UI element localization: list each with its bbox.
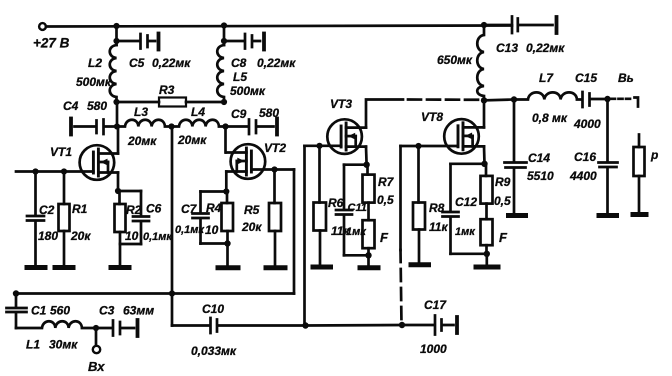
svg-text:0,033мк: 0,033мк xyxy=(191,344,237,358)
svg-text:L2: L2 xyxy=(88,56,102,70)
capacitor C4 xyxy=(75,120,118,135)
svg-text:10: 10 xyxy=(125,229,139,243)
resistor R3 xyxy=(159,98,186,107)
node R6 top xyxy=(316,143,322,149)
ground C2 xyxy=(27,265,45,270)
wire source bracket to C12 xyxy=(451,162,485,165)
svg-text:0,1мк: 0,1мк xyxy=(175,224,205,236)
svg-text:R6: R6 xyxy=(328,196,344,210)
wire C8 branch xyxy=(224,40,244,43)
capacitor C2 xyxy=(27,172,44,266)
svg-text:500мк: 500мк xyxy=(230,84,266,98)
svg-text:C2: C2 xyxy=(39,203,55,217)
node R8 top xyxy=(415,143,421,149)
wire source to C6 xyxy=(118,190,141,193)
ferrite F VT8 xyxy=(481,219,493,245)
svg-text:L5: L5 xyxy=(233,70,247,84)
node L5 bottom xyxy=(221,99,227,105)
svg-text:VT1: VT1 xyxy=(50,145,72,159)
svg-text:20к: 20к xyxy=(70,229,91,243)
capacitor C1 xyxy=(7,294,27,329)
svg-text:4400: 4400 xyxy=(569,169,597,183)
inductor L2 xyxy=(110,45,117,102)
resistor R1 xyxy=(63,172,66,205)
svg-text:0,22мк: 0,22мк xyxy=(526,41,565,55)
wire to ground VT8 xyxy=(485,254,488,265)
wire top supply rail xyxy=(46,26,512,27)
svg-text:C14: C14 xyxy=(528,151,550,165)
svg-text:5510: 5510 xyxy=(527,169,554,183)
wire C11 bottom join xyxy=(344,254,369,257)
svg-text:VT3: VT3 xyxy=(330,97,352,111)
node R4 bottom xyxy=(224,240,230,246)
capacitor C17 xyxy=(402,316,454,335)
svg-text:11к: 11к xyxy=(429,220,448,234)
inductor L5 xyxy=(217,45,224,102)
node C17 branch xyxy=(399,322,405,328)
wire C5 branch xyxy=(117,40,140,43)
node input rail xyxy=(13,290,19,296)
svg-text:0,5: 0,5 xyxy=(377,193,394,207)
svg-text:0,22мк: 0,22мк xyxy=(152,56,191,70)
wire to L7 node xyxy=(484,98,514,102)
svg-text:180: 180 xyxy=(38,229,58,243)
svg-text:L4: L4 xyxy=(191,105,205,119)
svg-text:R7: R7 xyxy=(378,175,395,189)
resistor R9 xyxy=(485,164,488,176)
svg-text:0,8 мк: 0,8 мк xyxy=(532,111,568,125)
node R9F bottom xyxy=(484,251,490,257)
svg-text:R4: R4 xyxy=(206,201,222,215)
wire C7/R4 bottom join xyxy=(201,242,228,245)
wire VT1 source drop xyxy=(117,173,120,192)
wire R3 row right xyxy=(186,101,224,104)
node C5 branch xyxy=(113,38,119,44)
svg-text:20мк: 20мк xyxy=(177,133,207,147)
dashed corner output xyxy=(635,98,639,107)
resistor R4 xyxy=(226,192,229,204)
wire C10 line xyxy=(172,324,209,327)
load resistor xyxy=(638,135,641,148)
node VT2 source xyxy=(223,188,229,194)
wire R3 row left xyxy=(117,101,160,104)
ground C14 xyxy=(509,213,526,218)
svg-text:560: 560 xyxy=(50,304,70,318)
svg-text:C4: C4 xyxy=(63,99,79,113)
wire VT2 drain xyxy=(224,127,227,153)
ground C16 xyxy=(599,213,617,218)
wire C6/R2 bottom join xyxy=(120,244,141,266)
inductor 650мк xyxy=(481,22,487,28)
svg-text:L1: L1 xyxy=(26,338,40,352)
svg-text:C12: C12 xyxy=(455,195,477,209)
ground R2C6 xyxy=(111,265,129,270)
capacitor C10 xyxy=(211,318,306,333)
svg-text:L7: L7 xyxy=(539,71,554,85)
node R1 top xyxy=(61,168,67,174)
svg-text:20мк: 20мк xyxy=(127,134,157,148)
capacitor C8 xyxy=(245,34,260,49)
svg-text:C3: C3 xyxy=(99,304,115,318)
wire VT8 gate line xyxy=(401,145,458,148)
svg-text:R8: R8 xyxy=(429,201,445,215)
wire L3L4 node to C10 line xyxy=(171,127,174,326)
svg-text:0,22мк: 0,22мк xyxy=(257,56,296,70)
svg-text:C15: C15 xyxy=(575,71,597,85)
svg-text:0,5: 0,5 xyxy=(494,194,511,208)
node input xyxy=(93,325,99,331)
wire VT3 source drop xyxy=(365,147,368,165)
resistor R2 xyxy=(118,191,121,204)
wire VT8 source drop xyxy=(483,146,486,163)
svg-text:F: F xyxy=(499,230,508,245)
wire source bracket to C11 xyxy=(344,163,367,166)
ground R1 xyxy=(55,265,73,270)
svg-text:500мк: 500мк xyxy=(76,75,112,89)
node top rail / L5 xyxy=(221,22,227,28)
wire VT8 gate down dashed xyxy=(401,250,402,325)
node rail crossing xyxy=(169,290,175,296)
node C16 top xyxy=(604,96,610,102)
wire VT1 drain column xyxy=(116,102,119,127)
wire VT3 gate column xyxy=(303,146,306,326)
svg-text:C17: C17 xyxy=(424,298,447,312)
capacitor C11 xyxy=(336,165,352,256)
svg-text:C1: C1 xyxy=(31,304,47,318)
resistor R7 xyxy=(366,165,369,175)
wire L5 branch drop xyxy=(223,26,226,46)
svg-text:R9: R9 xyxy=(495,175,511,189)
wire C12 bottom join xyxy=(451,252,487,255)
capacitor C13 xyxy=(484,17,553,34)
svg-text:1000: 1000 xyxy=(420,342,447,356)
svg-text:10: 10 xyxy=(205,223,219,237)
svg-text:C13: C13 xyxy=(496,41,518,55)
svg-text:R1: R1 xyxy=(72,202,88,216)
svg-text:Вх: Вх xyxy=(88,359,105,374)
transistor VT3 xyxy=(327,119,366,154)
node L7/C14 xyxy=(511,96,517,102)
svg-text:C6: C6 xyxy=(146,202,162,216)
wire dotted output xyxy=(611,97,631,100)
ferrite F VT3 xyxy=(363,220,375,248)
node VT8 source xyxy=(481,161,487,167)
capacitor C15 xyxy=(583,92,608,107)
input terminal Вх xyxy=(95,328,98,346)
inductor L1 xyxy=(16,321,96,328)
transistor VT8 xyxy=(444,119,484,154)
ground R9F xyxy=(476,265,498,270)
wire VT1 gate line xyxy=(16,170,93,173)
svg-text:R5: R5 xyxy=(244,203,260,217)
ground load xyxy=(633,212,646,217)
node VT1 source xyxy=(115,188,121,194)
svg-text:C10: C10 xyxy=(202,302,224,316)
inductor L3 xyxy=(117,120,172,127)
svg-text:30мк: 30мк xyxy=(49,338,78,352)
node C8 branch xyxy=(221,38,227,44)
wire F bottom xyxy=(367,248,370,255)
node C10 out xyxy=(302,322,308,328)
capacitor C9 xyxy=(226,120,274,135)
capacitor C12 xyxy=(443,164,459,254)
resistor R6 xyxy=(318,146,321,203)
svg-text:C16: C16 xyxy=(574,150,596,164)
capacitor C7 xyxy=(193,192,209,244)
node C9/L4/drain VT2 xyxy=(222,123,228,129)
wire bottom rail xyxy=(16,292,294,295)
wire source to C7 xyxy=(201,190,227,193)
inductor L7 xyxy=(514,92,581,99)
svg-text:VT8: VT8 xyxy=(421,110,443,124)
transistor VT1 xyxy=(80,145,118,180)
capacitor C6 xyxy=(133,191,149,244)
node R5 top xyxy=(271,166,277,172)
ground R4C7 xyxy=(218,265,238,270)
resistor R5 xyxy=(273,170,276,204)
wire VT2 source drop xyxy=(225,172,228,192)
svg-text:1мк: 1мк xyxy=(346,226,367,238)
wire R9 to F xyxy=(485,204,488,220)
capacitor C14 xyxy=(505,100,527,214)
svg-text:Вь: Вь xyxy=(618,71,634,85)
svg-text:VT2: VT2 xyxy=(264,141,286,155)
ground R6 xyxy=(313,265,331,270)
ground R5 xyxy=(266,265,285,270)
svg-text:63мм: 63мм xyxy=(123,304,154,318)
svg-text:4000: 4000 xyxy=(573,117,601,131)
capacitor C16 xyxy=(599,99,618,213)
svg-text:L3: L3 xyxy=(134,105,148,119)
svg-text:580: 580 xyxy=(87,99,107,113)
wire C10 to C17 xyxy=(306,324,403,327)
node L3/L4 xyxy=(168,123,174,129)
node L2 bottom xyxy=(113,99,119,105)
node top rail / L2 xyxy=(113,23,119,29)
svg-text:R2: R2 xyxy=(126,203,142,217)
svg-text:р: р xyxy=(650,148,658,162)
+27V input terminal xyxy=(39,23,46,30)
ground R7F xyxy=(360,265,378,270)
inductor L4 xyxy=(172,120,226,127)
svg-text:C7: C7 xyxy=(181,202,198,216)
wire R7 to F xyxy=(367,203,370,221)
wire VT2 gate to bottom rail xyxy=(293,170,296,294)
svg-text:650мк: 650мк xyxy=(437,53,473,67)
node C4/L3/drain xyxy=(114,123,120,129)
wire to ground VT3 xyxy=(367,255,370,265)
wire dashed drain link xyxy=(408,98,483,101)
capacitor C5 xyxy=(141,34,156,49)
ground R8 xyxy=(411,262,429,267)
svg-text:R3: R3 xyxy=(159,83,175,97)
svg-text:20к: 20к xyxy=(241,220,262,234)
wire VT8 gate down solid xyxy=(399,146,402,250)
node R7F bottom xyxy=(365,252,371,258)
wire L2 branch drop xyxy=(115,26,118,45)
svg-text:1мк: 1мк xyxy=(455,226,476,238)
node 650/VT8 xyxy=(481,97,487,103)
wire R4 bottom to ground xyxy=(226,244,229,267)
wire VT3 gate line xyxy=(305,144,342,147)
node VT3 source xyxy=(363,162,369,168)
wire VT3 drain up xyxy=(366,100,403,128)
svg-text:F: F xyxy=(380,230,389,245)
wire VT8 drain up xyxy=(483,100,486,127)
node C2 top xyxy=(32,168,38,174)
wire VT1 drain xyxy=(117,127,120,154)
svg-text:0,1мк: 0,1мк xyxy=(143,231,173,243)
svg-text:C8: C8 xyxy=(231,56,247,70)
wire VT2 gate line xyxy=(251,168,294,171)
wire F bottom VT8 xyxy=(485,245,488,254)
svg-text:C9: C9 xyxy=(231,107,247,121)
capacitor C3 xyxy=(96,321,134,336)
svg-text:+27 В: +27 В xyxy=(33,36,70,51)
resistor R8 xyxy=(417,146,420,203)
svg-text:580: 580 xyxy=(259,106,279,120)
svg-text:C5: C5 xyxy=(129,56,145,70)
transistor VT2 (mirrored) xyxy=(226,144,265,179)
